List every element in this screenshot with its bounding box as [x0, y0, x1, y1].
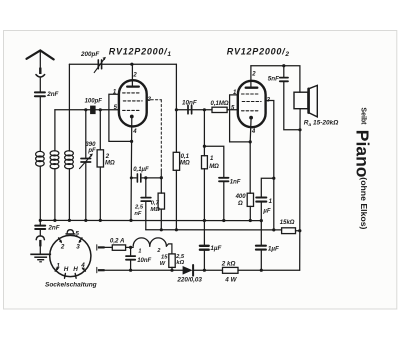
- wire coupling to grid2: [176, 109, 212, 111]
- svg-text:0,1MΩ: 0,1MΩ: [211, 101, 229, 107]
- capacitor 0,1uF: [131, 174, 161, 182]
- wire screen tube2: [266, 101, 274, 230]
- inductor L2: [50, 110, 59, 221]
- wire filter to bottom: [203, 250, 205, 271]
- tube socket diagram: [50, 230, 91, 277]
- node 390pF top: [84, 108, 87, 111]
- node bus 390pF: [84, 219, 87, 222]
- wire plate drop: [175, 64, 177, 152]
- node 1nF branch: [203, 145, 206, 148]
- node cathode tie1: [130, 140, 133, 143]
- resistor 0,1M ohm grid stopper: [212, 107, 227, 112]
- node 0,7M top: [160, 176, 163, 179]
- capacitor 10nF coupling: [188, 105, 192, 113]
- svg-text:RV12P2000/1: RV12P2000/1: [109, 47, 172, 59]
- fuse 0,2A: [112, 245, 125, 250]
- node bus 2M: [99, 219, 102, 222]
- svg-text:MΩ: MΩ: [209, 164, 219, 170]
- wire cathode tube1: [130, 117, 133, 221]
- svg-text:W: W: [160, 261, 166, 267]
- svg-text:1µF: 1µF: [210, 245, 221, 252]
- node grid2: [203, 108, 206, 111]
- antenna: [27, 50, 54, 67]
- svg-text:H: H: [64, 266, 69, 273]
- diode rectifier: [183, 265, 194, 276]
- socket pin 4 tick: [83, 268, 86, 271]
- svg-text:MΩ: MΩ: [105, 161, 115, 167]
- svg-text:2: 2: [105, 154, 110, 160]
- svg-text:1: 1: [56, 263, 60, 270]
- wire 1nF to bus: [223, 181, 225, 220]
- socket pin 2 tick: [59, 238, 62, 242]
- wire to 1nF: [204, 146, 223, 178]
- node rail 0,1M: [175, 228, 178, 231]
- wire fuse to choke: [126, 246, 134, 248]
- wire 2,5k to bottom: [171, 267, 173, 270]
- wire top feedback: [69, 63, 176, 65]
- svg-text:Seibt: Seibt: [359, 107, 366, 125]
- speaker: [294, 85, 317, 129]
- svg-text:220/0,03: 220/0,03: [176, 277, 202, 284]
- svg-text:Sockelschaltung: Sockelschaltung: [45, 281, 97, 288]
- svg-text:2: 2: [60, 244, 65, 251]
- svg-text:400: 400: [235, 194, 247, 200]
- socket H tick left: [64, 274, 67, 279]
- resistor 2k ohm 4W: [223, 267, 239, 273]
- ground: [30, 254, 51, 261]
- svg-text:pF: pF: [87, 148, 96, 154]
- resistor 0,7M ohm: [158, 178, 164, 230]
- svg-text:4: 4: [132, 129, 137, 135]
- svg-text:2: 2: [132, 72, 137, 78]
- node bus cathode1: [129, 219, 132, 222]
- svg-text:MΩ: MΩ: [180, 161, 190, 167]
- resistor 2,5k ohm: [169, 254, 175, 268]
- node bus 400: [249, 219, 252, 222]
- capacitor 100pF block: [90, 106, 96, 115]
- node bus 1nF: [222, 219, 225, 222]
- svg-text:2,5: 2,5: [134, 205, 144, 211]
- wire grid leak column: [203, 110, 205, 156]
- svg-text:Ω: Ω: [237, 201, 243, 207]
- svg-text:0,1: 0,1: [181, 154, 190, 160]
- choke winding: [133, 238, 172, 254]
- wire 1M to bus: [203, 169, 205, 246]
- node 15k right: [298, 229, 301, 232]
- plug connector antenna: [36, 68, 45, 92]
- svg-text:0,1µF: 0,1µF: [133, 167, 149, 173]
- node screen2 cap: [272, 177, 275, 180]
- svg-text:100pF: 100pF: [85, 98, 103, 104]
- main bus B+: [40, 219, 261, 221]
- wire speaker return: [299, 130, 301, 270]
- svg-text:nF: nF: [134, 211, 142, 217]
- resistor 400 ohm: [247, 193, 253, 206]
- svg-text:4: 4: [251, 129, 256, 135]
- wire grid bus tube1: [55, 109, 119, 111]
- wire 15k to speaker line: [296, 230, 300, 232]
- mains terminal upper: [97, 245, 113, 250]
- resistor 1M ohm: [202, 156, 208, 169]
- node rail screen2: [272, 228, 275, 231]
- socket pin 1 tick: [55, 268, 58, 271]
- node filter bottom: [203, 269, 206, 272]
- node bus L3: [68, 219, 71, 222]
- inductor L3: [65, 64, 74, 220]
- socket H tick right: [74, 274, 77, 279]
- wire screen tube1 dashed: [147, 100, 162, 178]
- node 2,5nF top: [144, 176, 147, 179]
- capacitor 1uF cathode: [256, 178, 274, 245]
- svg-text:µF: µF: [262, 209, 270, 215]
- svg-text:200pF: 200pF: [80, 51, 99, 58]
- node bus L2: [53, 219, 56, 222]
- svg-text:2: 2: [156, 248, 160, 254]
- svg-text:1: 1: [138, 248, 141, 254]
- trimmer capacitor 200pF: [94, 57, 106, 73]
- svg-text:10nF: 10nF: [137, 258, 151, 264]
- node 10nF top: [129, 246, 132, 249]
- svg-text:2nF: 2nF: [47, 224, 59, 231]
- svg-text:(ohne Elkos): (ohne Elkos): [359, 177, 369, 229]
- svg-text:4: 4: [80, 262, 85, 269]
- svg-text:Piano: Piano: [353, 130, 373, 178]
- node 01uF branch: [130, 176, 133, 179]
- resistor 2M ohm: [97, 110, 103, 221]
- svg-text:kΩ: kΩ: [176, 260, 184, 266]
- svg-text:1µF: 1µF: [268, 245, 279, 252]
- node speaker 5nF: [298, 128, 301, 131]
- wire top tube2 to speaker: [251, 66, 300, 93]
- capacitor 1nF: [219, 178, 229, 182]
- bottom mains bus: [105, 269, 300, 271]
- node 10nF bottom: [129, 269, 132, 272]
- mains terminal lower: [97, 267, 105, 272]
- node plate tube1: [130, 63, 133, 66]
- capacitor 2nF antenna: [35, 92, 45, 151]
- svg-text:5: 5: [75, 231, 79, 238]
- capacitor 10nF mains: [126, 247, 135, 270]
- svg-text:10nF: 10nF: [182, 100, 197, 107]
- svg-text:15kΩ: 15kΩ: [280, 220, 295, 226]
- node 1uF bottom: [260, 269, 263, 272]
- svg-text:0,7: 0,7: [151, 201, 160, 207]
- wire cathode tube2: [249, 118, 252, 194]
- node 2M top: [99, 108, 102, 111]
- node bus end: [260, 219, 263, 222]
- socket pin 3 tick: [79, 238, 82, 242]
- node 2,5k bottom: [170, 269, 173, 272]
- wire grid1 tie tube1: [109, 94, 132, 141]
- capacitor 5nF: [280, 66, 300, 130]
- capacitor 2,5nF: [141, 178, 151, 230]
- svg-text:2,5: 2,5: [175, 254, 185, 260]
- node coupling: [175, 108, 178, 111]
- svg-text:2: 2: [251, 72, 256, 78]
- capacitor 1uF mains filter: [200, 246, 209, 250]
- wire stopper to tube2: [227, 109, 238, 111]
- wire 0,1M to rail: [175, 170, 177, 230]
- resistor 15k ohm: [282, 228, 296, 234]
- svg-text:2 kΩ: 2 kΩ: [221, 260, 236, 267]
- svg-text:4 W: 4 W: [224, 277, 237, 284]
- svg-text:MΩ: MΩ: [150, 207, 160, 213]
- node rail 0,7M: [160, 228, 163, 231]
- tube V2 RV12P2000: [238, 66, 266, 128]
- trimmer capacitor 390pF: [80, 110, 93, 221]
- capacitor 1uF output: [256, 246, 266, 271]
- resistor 0,1M ohm anode load: [173, 152, 179, 170]
- svg-text:5nF: 5nF: [268, 75, 279, 82]
- ground assembly: [35, 220, 45, 253]
- node bus 1M: [203, 219, 206, 222]
- wire 400 to bus: [249, 206, 251, 220]
- svg-text:H: H: [73, 266, 78, 273]
- svg-text:2nF: 2nF: [46, 91, 58, 98]
- grid return rail: [146, 229, 282, 231]
- inductor L1: [36, 151, 45, 220]
- node 5nF top: [282, 64, 285, 67]
- tube V1 RV12P2000: [119, 64, 147, 126]
- node bus L1: [39, 219, 42, 222]
- wire grid1 tie tube2: [230, 95, 251, 142]
- svg-text:0,2 A: 0,2 A: [110, 237, 125, 244]
- svg-text:1nF: 1nF: [230, 179, 241, 185]
- node cathode tie2: [249, 140, 252, 143]
- svg-text:RV12P2000/2: RV12P2000/2: [227, 46, 290, 58]
- svg-text:15: 15: [161, 254, 168, 260]
- svg-text:3: 3: [76, 244, 80, 251]
